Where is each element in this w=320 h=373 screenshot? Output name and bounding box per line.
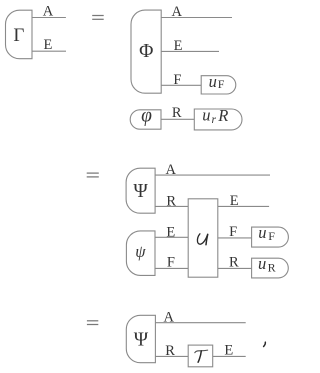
svg-text:F: F bbox=[218, 77, 225, 91]
equals (top) bbox=[92, 15, 104, 17]
svg-text:R: R bbox=[229, 255, 239, 271]
wire E (T out) bbox=[213, 355, 246, 357]
svg-text:F: F bbox=[229, 224, 237, 240]
wire A (Phi) bbox=[161, 17, 232, 19]
svg-text:Ψ: Ψ bbox=[133, 181, 148, 202]
svg-text:F: F bbox=[268, 229, 275, 243]
svg-text:u: u bbox=[258, 223, 266, 242]
svg-text:r: r bbox=[212, 114, 217, 126]
wire E (U out) bbox=[218, 205, 269, 207]
wire F (U out) bbox=[218, 237, 252, 239]
label T (channel, script) bbox=[195, 350, 208, 362]
svg-text:E: E bbox=[43, 37, 52, 53]
box uF (top) bbox=[201, 76, 236, 94]
svg-text:R: R bbox=[172, 105, 182, 121]
wire R (Psi to T) bbox=[155, 355, 188, 357]
svg-text:R: R bbox=[166, 193, 176, 209]
svg-text:u: u bbox=[209, 72, 217, 91]
channel T box bbox=[188, 345, 213, 367]
svg-text:R: R bbox=[165, 343, 175, 359]
svg-text:A: A bbox=[166, 162, 177, 178]
svg-text:F: F bbox=[173, 72, 181, 88]
wire R (U out) bbox=[218, 267, 252, 269]
box uR bbox=[252, 258, 289, 278]
box urR bbox=[194, 109, 242, 130]
state Psi (bottom) bbox=[126, 315, 155, 362]
svg-text:Ψ: Ψ bbox=[134, 330, 149, 351]
wire E (Phi) bbox=[161, 50, 219, 52]
svg-text:F: F bbox=[167, 255, 175, 271]
equals (bottom) bbox=[87, 320, 98, 322]
svg-text:E: E bbox=[174, 38, 183, 54]
box uF (middle) bbox=[252, 227, 289, 247]
state Gamma bbox=[6, 10, 33, 59]
label U (unitary, script) bbox=[197, 234, 207, 245]
svg-text:E: E bbox=[224, 342, 233, 358]
wire E (psi to U) bbox=[155, 236, 188, 238]
svg-text:Γ: Γ bbox=[13, 25, 24, 46]
state phi bbox=[130, 110, 161, 129]
state Psi (middle) bbox=[126, 168, 155, 213]
svg-text:φ: φ bbox=[141, 105, 152, 126]
svg-text:E: E bbox=[166, 224, 175, 240]
wire F (Phi) bbox=[161, 84, 201, 86]
svg-text:R: R bbox=[268, 261, 276, 275]
wire R (phi) bbox=[161, 118, 194, 120]
svg-text:u: u bbox=[202, 106, 210, 125]
svg-text:E: E bbox=[230, 193, 239, 209]
state psi bbox=[126, 231, 155, 276]
svg-text:R: R bbox=[217, 106, 228, 125]
wire A (Psi bottom) bbox=[155, 322, 245, 324]
unitary U box bbox=[188, 199, 218, 277]
equals (middle) bbox=[87, 172, 99, 174]
svg-text:u: u bbox=[258, 254, 266, 273]
svg-text:Φ: Φ bbox=[139, 41, 153, 62]
wire A (Gamma top) bbox=[32, 17, 66, 19]
channel Phi bbox=[131, 10, 161, 93]
wire R (Psi to U) bbox=[155, 205, 188, 207]
svg-text:ψ: ψ bbox=[135, 242, 146, 261]
wire F (psi to U) bbox=[155, 267, 188, 269]
wire E (Gamma bottom) bbox=[32, 50, 66, 52]
wire A (Psi middle) bbox=[155, 174, 270, 176]
svg-text:A: A bbox=[164, 309, 175, 325]
svg-text:A: A bbox=[171, 4, 182, 20]
comma bbox=[264, 342, 266, 346]
svg-text:A: A bbox=[43, 4, 54, 20]
